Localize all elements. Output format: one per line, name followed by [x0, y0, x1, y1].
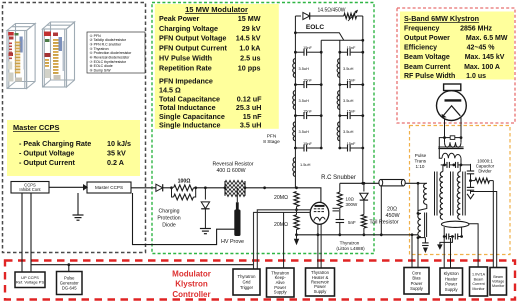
pulse transformer primary winding upper	[418, 182, 427, 184]
svg-text:Efficiency: Efficiency	[404, 45, 437, 52]
wire: PFN left column	[294, 33, 296, 188]
transformer bifilar winding upper	[444, 138, 446, 143]
svg-text:RF Pulse Width: RF Pulse Width	[404, 73, 455, 80]
ground under Master CCPS	[77, 193, 79, 215]
svg-text:100Ω: 100Ω	[178, 178, 191, 184]
wire: primary bottom node with bias caps	[417, 236, 420, 239]
wire: CCPS Inhibit to Master CCPS with arrow	[49, 186, 83, 188]
svg-text:⑧ EOLC diode: ⑧ EOLC diode	[90, 64, 113, 68]
thyratron tube (Litton L4888)	[310, 202, 329, 224]
box: UP CCPS Ref. Voltage PS	[15, 272, 45, 288]
svg-text:② Tailclip diode/resistor: ② Tailclip diode/resistor	[90, 38, 127, 42]
capacitor: snubber 5nF	[339, 208, 341, 220]
capacitor C7 15nF	[340, 115, 347, 117]
svg-text:15nF: 15nF	[303, 141, 312, 146]
HV probe	[236, 188, 238, 203]
wire: trigger distribution line in controller	[31, 264, 254, 266]
svg-text:20MΩ: 20MΩ	[274, 222, 288, 228]
svg-text:15nF: 15nF	[303, 77, 312, 82]
diode D4: tail clipper diode	[363, 183, 365, 191]
box: Thyratron Grid Trigger	[233, 269, 260, 295]
svg-text:Reversal Resistor: Reversal Resistor	[213, 162, 254, 168]
box: CCPS Inhibit Cont	[11, 182, 49, 194]
capacitor C5 15nF	[340, 51, 347, 53]
svg-text:5nF: 5nF	[348, 220, 356, 225]
svg-text:Protection: Protection	[157, 216, 180, 222]
svg-text:Single Inductance: Single Inductance	[159, 120, 221, 129]
svg-text:④ Thyratron: ④ Thyratron	[90, 47, 109, 51]
svg-text:15 MW: 15 MW	[238, 14, 261, 23]
transformer bifilar winding lower	[442, 153, 461, 158]
box: Master CCPS	[87, 182, 131, 193]
resistor: 20 ohm 450W tube resistor (cylinder)	[379, 180, 405, 186]
inductor L2 3.5uH	[293, 91, 296, 110]
pulse transformer primary winding lower	[418, 213, 421, 237]
wire: core bias supply leads	[411, 235, 413, 268]
box: Beam Voltage Monitor	[490, 268, 507, 296]
capacitor C8 15nF	[340, 147, 347, 149]
svg-text:Output Power: Output Power	[404, 35, 450, 42]
svg-text:Beam: Beam	[474, 277, 484, 281]
svg-text:Inhibit Cont: Inhibit Cont	[19, 187, 41, 192]
svg-text:Beam: Beam	[493, 275, 503, 279]
inductor L1 3.5uH	[293, 59, 296, 78]
svg-text:3.5 uH: 3.5 uH	[240, 120, 262, 129]
svg-text:3.5uH: 3.5uH	[299, 129, 310, 134]
svg-text:- Output Voltage: - Output Voltage	[19, 148, 74, 157]
capacitor C1 15nF	[295, 51, 303, 53]
svg-text:1.5uH: 1.5uH	[300, 162, 311, 167]
svg-text:Max. 100 A: Max. 100 A	[464, 64, 500, 71]
svg-text:Ref. Voltage PS: Ref. Voltage PS	[16, 280, 45, 285]
wire: Master CCPS feedback down and right to HV probe	[133, 193, 235, 245]
svg-text:29 kV: 29 kV	[242, 24, 261, 33]
wire: PFN middle bus	[320, 40, 322, 148]
inductor L6 3.5uH	[337, 91, 340, 110]
wire: cylinder left end to return bus	[380, 186, 382, 235]
svg-text:1:10: 1:10	[416, 164, 425, 169]
wire: heater return ground	[440, 237, 453, 245]
transformer core lines (top)	[438, 146, 463, 148]
svg-text:8 Stage: 8 Stage	[263, 139, 280, 145]
svg-text:Trigger: Trigger	[240, 285, 254, 290]
svg-text:Frequency: Frequency	[404, 25, 440, 32]
svg-text:3.5uH: 3.5uH	[343, 66, 354, 71]
svg-text:DG-645: DG-645	[62, 286, 77, 291]
wire: CCPS Inhibit control lines down to UP CCPS box	[21, 193, 23, 272]
ground arrow below divider	[296, 235, 298, 239]
capacitor C4 15nF	[295, 147, 303, 149]
box: Beam Current Monitor	[470, 267, 488, 296]
svg-text:10 pps: 10 pps	[238, 64, 261, 73]
svg-text:450W: 450W	[385, 213, 400, 219]
svg-text:Total Inductance: Total Inductance	[159, 103, 216, 112]
svg-text:15nF: 15nF	[347, 141, 356, 146]
wire: cathode return bus	[297, 234, 419, 236]
svg-text:3.5uH: 3.5uH	[343, 98, 354, 103]
svg-text:35 kV: 35 kV	[107, 148, 126, 157]
capacitor C6 15nF	[340, 84, 347, 86]
svg-text:10 kJ/s: 10 kJ/s	[107, 139, 131, 148]
wire: PFN right bus	[362, 40, 364, 183]
bifilar top link with fuse	[445, 137, 451, 139]
svg-text:Thyratron: Thyratron	[340, 241, 360, 246]
wire: PFN output to thyratron anode	[297, 188, 321, 203]
svg-text:2.5 us: 2.5 us	[240, 54, 260, 63]
wire: charging line to reversal resistor	[205, 187, 225, 189]
svg-text:Charging: Charging	[158, 209, 179, 215]
svg-text:Grid: Grid	[243, 280, 252, 285]
box: Thyratron Keep-Alive Power Supply	[267, 268, 295, 297]
svg-text:15nF: 15nF	[347, 108, 356, 113]
capacitor C2 15nF	[295, 84, 303, 86]
svg-text:PFN Output Current: PFN Output Current	[159, 44, 227, 53]
svg-text:300W: 300W	[346, 202, 359, 207]
thyratron aux stubs	[333, 207, 340, 209]
resistor: divider output	[475, 178, 490, 183]
corona ring	[441, 221, 469, 227]
svg-text:Thyratron: Thyratron	[238, 274, 257, 279]
wire: output line from PFN bus to pulse transformer	[340, 182, 380, 184]
svg-text:S-Band 6MW Klystron: S-Band 6MW Klystron	[404, 14, 479, 23]
box: Klystron Heater Power Supply	[440, 268, 463, 295]
svg-text:Peak Power: Peak Power	[159, 14, 200, 23]
svg-text:R.C Snubber: R.C Snubber	[321, 175, 356, 181]
svg-text:Modulator: Modulator	[172, 270, 211, 279]
svg-text:(Litton L4888): (Litton L4888)	[336, 246, 365, 251]
svg-text:Max. 6.5 MW: Max. 6.5 MW	[466, 35, 508, 42]
svg-text:10Ω: 10Ω	[346, 197, 355, 202]
svg-text:Klystron: Klystron	[175, 280, 208, 289]
wire: pulse generator connection	[68, 265, 70, 272]
wire: PFN right column	[339, 40, 341, 143]
svg-text:Controller: Controller	[172, 290, 210, 299]
svg-text:Beam Voltage: Beam Voltage	[404, 54, 450, 61]
svg-text:42~45 %: 42~45 %	[467, 45, 496, 52]
wire: charging line to PFN	[245, 187, 297, 189]
inductor L4 1.5uH output inductor	[293, 158, 296, 177]
info box: 15 MW Modulator specs	[155, 4, 279, 129]
box: Pulse Generator DG-645	[57, 272, 83, 295]
svg-text:HV Pulse Width: HV Pulse Width	[159, 54, 212, 63]
svg-text:HV Prove: HV Prove	[221, 239, 244, 245]
svg-text:Master CCPS: Master CCPS	[95, 185, 123, 190]
wire: right column to last cap	[339, 143, 341, 148]
svg-text:- Output Current: - Output Current	[19, 158, 75, 167]
transformer secondary winding left	[442, 165, 444, 172]
diode D3: EOLC diode	[295, 15, 301, 17]
inductor L7 3.5uH	[337, 122, 340, 141]
cabinet drawing: modulator tank 3D view 1	[7, 24, 35, 89]
svg-text:Beam Current: Beam Current	[404, 64, 451, 71]
svg-text:15nF: 15nF	[303, 108, 312, 113]
wire: heater supply leads below corona ring	[443, 227, 445, 236]
svg-text:14.5Ω/450W: 14.5Ω/450W	[318, 7, 346, 13]
svg-text:2856 MHz: 2856 MHz	[460, 25, 492, 32]
svg-text:14.5 kV: 14.5 kV	[236, 34, 261, 43]
legend: cabinet component key	[87, 32, 145, 73]
svg-text:Supply: Supply	[314, 289, 328, 294]
wire: thyratron grid lines to grid trigger	[257, 210, 310, 269]
svg-text:15nF: 15nF	[347, 77, 356, 82]
transformer secondary winding right	[459, 165, 461, 172]
svg-text:14.5 Ω: 14.5 Ω	[159, 86, 181, 95]
wire: PFN top interconnect	[295, 33, 343, 41]
svg-text:PFN: PFN	[267, 134, 277, 140]
svg-text:Supply: Supply	[445, 287, 459, 292]
klystron tube symbol	[437, 84, 467, 121]
svg-text:Supply: Supply	[274, 290, 288, 295]
wire: primary tap	[417, 183, 419, 213]
svg-text:Pulse: Pulse	[415, 153, 427, 158]
info box: Master CCPS specs	[7, 120, 140, 176]
resistor: snubber 10 ohm 300W	[337, 192, 342, 208]
svg-text:3.5uH: 3.5uH	[299, 98, 310, 103]
svg-text:Total Capacitance: Total Capacitance	[159, 95, 220, 104]
wire: bifilar left bypass	[439, 138, 444, 159]
svg-text:Diode: Diode	[162, 223, 176, 229]
resistor: tail clipper resistor	[363, 201, 365, 215]
svg-text:⑨ Dump S/W: ⑨ Dump S/W	[90, 69, 112, 73]
inductor L3 3.5uH	[293, 122, 296, 141]
svg-text:EOLC: EOLC	[306, 24, 325, 31]
cabinet drawing: modulator tank 3D view 2	[43, 22, 75, 87]
svg-text:Master CCPS: Master CCPS	[13, 123, 59, 132]
gray dashed border: Master CCPS cabinet section	[3, 3, 146, 253]
wire: cylinder to transformer node	[405, 182, 418, 184]
svg-text:Voltage: Voltage	[492, 280, 504, 284]
svg-text:Monitor: Monitor	[492, 284, 505, 288]
svg-text:400 Ω 600W: 400 Ω 600W	[217, 168, 246, 174]
capacitor: divider lower	[467, 186, 474, 188]
svg-text:Divider: Divider	[478, 169, 492, 174]
svg-text:20MΩ: 20MΩ	[274, 195, 288, 201]
svg-text:15 MW Modulator: 15 MW Modulator	[185, 5, 248, 14]
svg-text:20Ω: 20Ω	[387, 207, 397, 213]
transformer core lines (secondary)	[434, 172, 436, 216]
orange dashed border: pulse transformer tank section	[410, 126, 511, 255]
wire: corona ring to beam current monitor	[468, 224, 478, 267]
transformer core lines (lower)	[424, 213, 426, 238]
svg-text:Monitor: Monitor	[472, 287, 485, 291]
wire: right bus of EOLC	[362, 16, 364, 40]
svg-text:PFN Impedance: PFN Impedance	[159, 77, 213, 86]
red dashed border: S-Band Klystron section	[397, 8, 515, 123]
capacitor divider network	[470, 164, 472, 171]
wire: snubber branch from output line	[339, 183, 341, 192]
svg-text:PFN Output Voltage: PFN Output Voltage	[159, 34, 226, 43]
svg-text:0.12 uF: 0.12 uF	[237, 95, 262, 104]
svg-text:⑥ Reversal diode/resistor: ⑥ Reversal diode/resistor	[90, 56, 131, 60]
wire: divider taps to beam voltage monitor	[492, 181, 494, 268]
red dashed border: Modulator Klystron Controller section	[5, 261, 515, 300]
svg-text:Charging Voltage: Charging Voltage	[159, 24, 218, 33]
klystron heater bifilar leads from klystron	[444, 118, 446, 138]
wire: keep-alive tap	[283, 212, 285, 268]
svg-text:3.5uH: 3.5uH	[299, 66, 310, 71]
wire: EOLC left leg	[294, 16, 296, 33]
svg-text:- Peak Charging Rate: - Peak Charging Rate	[19, 139, 91, 148]
svg-text:1.0V/1A: 1.0V/1A	[472, 273, 486, 277]
svg-text:3.5uH: 3.5uH	[343, 129, 354, 134]
diode D1: charging diode	[153, 187, 156, 189]
wire: Master CCPS output to charging diode	[131, 187, 153, 189]
box: Core Bias Power Supply	[404, 268, 429, 295]
svg-text:25.3 uH: 25.3 uH	[236, 103, 262, 112]
svg-text:Max. 145 kV: Max. 145 kV	[465, 54, 505, 61]
diode D2: charging protection diode with ground	[204, 188, 206, 200]
box: Thyratron Heater and Reservoir Power Supply	[306, 268, 335, 296]
wire: bifilar outputs with damping caps	[444, 158, 446, 165]
svg-text:Current: Current	[472, 282, 484, 286]
svg-text:Supply: Supply	[410, 286, 424, 291]
wire: klystron heater power supply leads	[443, 237, 445, 269]
info box: S-Band 6MW Klystron specs	[400, 12, 514, 81]
svg-text:15nF: 15nF	[303, 45, 312, 50]
svg-text:Trans: Trans	[415, 159, 427, 164]
svg-text:0.2 A: 0.2 A	[107, 158, 124, 167]
svg-text:1.0 us: 1.0 us	[466, 73, 486, 80]
green dashed border: 15 MW Modulator section	[152, 3, 374, 254]
capacitor C3 15nF	[295, 115, 303, 117]
svg-text:Tail Resistor: Tail Resistor	[369, 220, 399, 226]
svg-text:Repetition Rate: Repetition Rate	[159, 64, 212, 73]
svg-text:1.0 kA: 1.0 kA	[239, 44, 260, 53]
wire: thyratron cathode/heater leads	[317, 224, 319, 268]
svg-text:15nF: 15nF	[347, 45, 356, 50]
inductor L5 3.5uH	[337, 59, 340, 78]
